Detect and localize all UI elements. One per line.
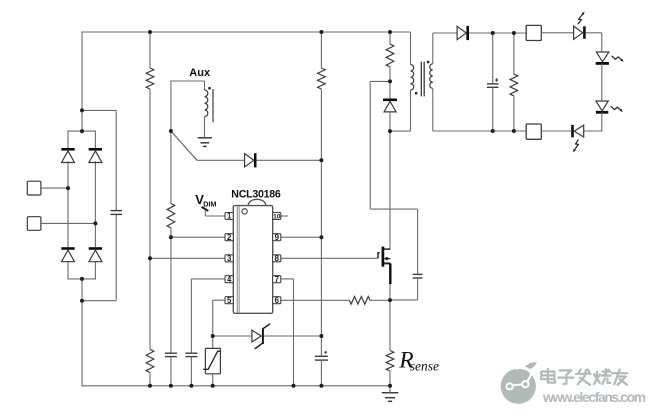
svg-text:DIM: DIM (203, 199, 216, 208)
svg-text:1: 1 (227, 212, 232, 221)
svg-text:8: 8 (275, 254, 280, 263)
svg-text:Aux: Aux (189, 67, 211, 79)
svg-text:NCL30186: NCL30186 (231, 188, 281, 200)
svg-text:www.elecfans.com: www.elecfans.com (542, 390, 646, 405)
svg-text:5: 5 (227, 296, 232, 305)
svg-text:6: 6 (275, 296, 280, 305)
svg-text:9: 9 (275, 233, 280, 242)
svg-text:4: 4 (227, 275, 232, 284)
svg-text:2: 2 (227, 233, 232, 242)
svg-text:10: 10 (273, 214, 281, 221)
svg-text:sense: sense (410, 358, 439, 373)
svg-text:7: 7 (275, 275, 279, 284)
svg-text:3: 3 (227, 254, 232, 263)
